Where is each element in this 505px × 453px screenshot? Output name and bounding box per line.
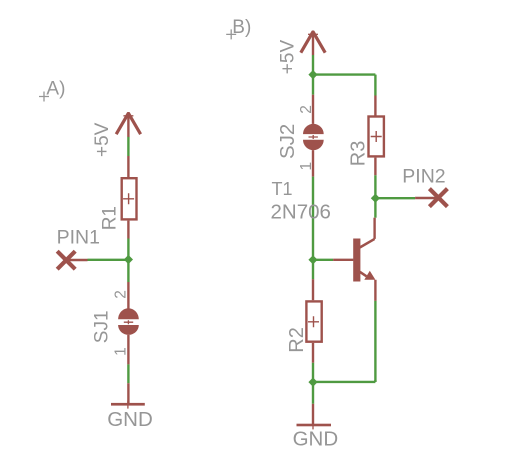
svg-text:+5V: +5V <box>92 122 113 157</box>
svg-text:GND: GND <box>293 428 339 451</box>
svg-text:PIN1: PIN1 <box>57 226 100 248</box>
svg-text:T1: T1 <box>272 179 293 199</box>
svg-text:R2: R2 <box>286 327 308 353</box>
svg-text:2: 2 <box>298 105 315 114</box>
svg-text:R3: R3 <box>347 141 369 167</box>
svg-text:SJ2: SJ2 <box>276 124 299 159</box>
svg-text:A): A) <box>46 78 65 99</box>
svg-text:2: 2 <box>112 290 129 299</box>
svg-text:R1: R1 <box>100 206 121 230</box>
svg-text:1: 1 <box>112 347 129 356</box>
svg-text:SJ1: SJ1 <box>92 310 113 343</box>
svg-text:+5V: +5V <box>277 40 298 75</box>
svg-text:2N706: 2N706 <box>271 201 331 224</box>
svg-text:PIN2: PIN2 <box>402 165 445 187</box>
svg-text:GND: GND <box>107 408 153 431</box>
